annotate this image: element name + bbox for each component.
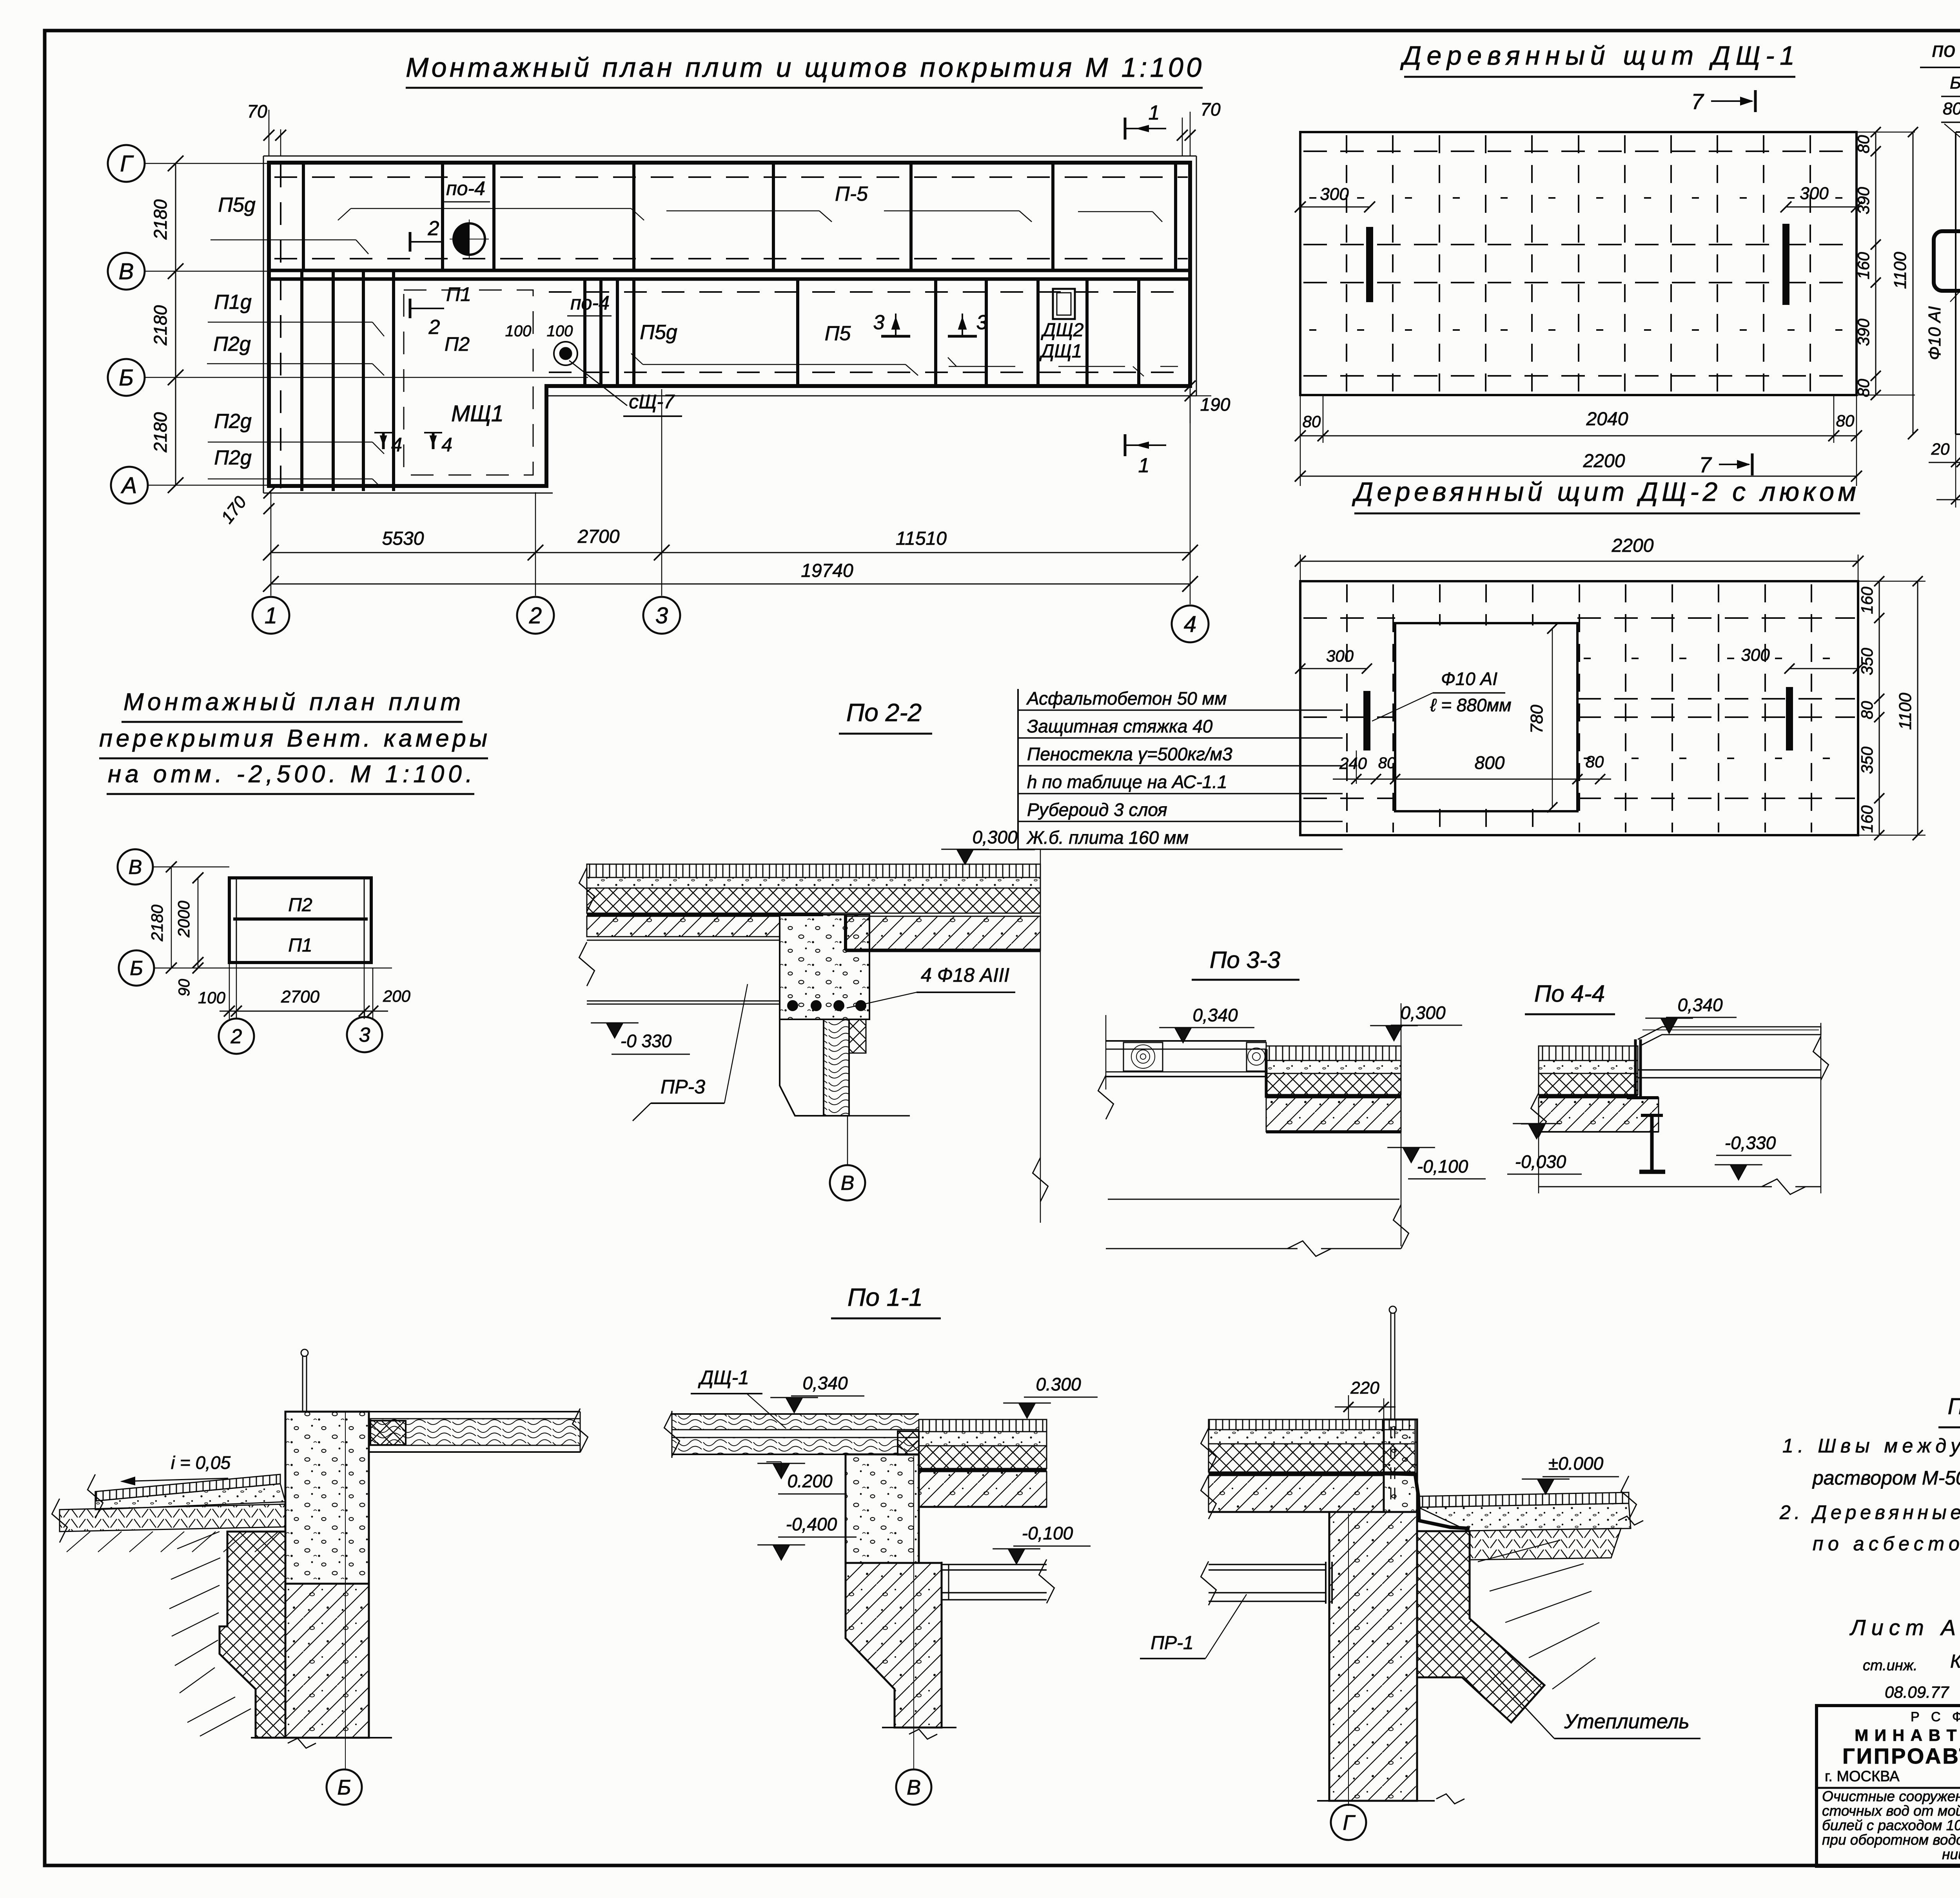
svg-text:780: 780	[1527, 705, 1546, 734]
detail G: purlin I-beam left	[1209, 1564, 1326, 1565]
svg-text:-0,400: -0,400	[786, 1514, 837, 1534]
dim 190 right step	[1190, 386, 1191, 423]
po3-3 recessed roof layers	[1266, 1046, 1401, 1060]
svg-text:ГИПРОАВТОТРАНС: ГИПРОАВТОТРАНС	[1842, 1744, 1960, 1768]
svg-text:0.200: 0.200	[787, 1471, 833, 1491]
svg-text:ПР-1: ПР-1	[1151, 1633, 1193, 1653]
svg-text:160: 160	[1858, 586, 1876, 614]
svg-text:В: В	[841, 1172, 855, 1195]
svg-text:2: 2	[230, 1025, 242, 1048]
svg-text:Очистные сооружения для: Очистные сооружения для	[1822, 1788, 1960, 1804]
svg-text:h по таблице на АС-1.1: h по таблице на АС-1.1	[1027, 772, 1227, 792]
svg-text:390: 390	[1854, 318, 1873, 346]
svg-text:перекрытия Вент. камеры: перекрытия Вент. камеры	[99, 725, 487, 752]
dim 70 top left	[269, 110, 270, 156]
svg-text:350: 350	[1858, 746, 1876, 774]
svg-text:ПР-3: ПР-3	[661, 1076, 705, 1098]
svg-text:1100: 1100	[1891, 252, 1910, 289]
svg-text:билей с расходом 10, 20 и 3: билей с расходом 10, 20 и 30 л/сек	[1822, 1817, 1960, 1833]
leader to SCh-7 label	[569, 361, 627, 406]
svg-text:Г: Г	[1343, 1811, 1356, 1835]
svg-text:при оборотном водоснабже-: при оборотном водоснабже-	[1822, 1832, 1960, 1848]
svg-text:-0,330: -0,330	[1725, 1133, 1776, 1153]
svg-text:80: 80	[1378, 754, 1396, 772]
svg-text:П2: П2	[288, 895, 312, 915]
svg-text:П5: П5	[825, 322, 851, 345]
svg-text:А: А	[121, 473, 137, 498]
po4-4 bottom dim line	[1538, 1132, 1539, 1193]
svg-text:100: 100	[547, 323, 573, 340]
svg-text:В: В	[129, 856, 142, 879]
svg-text:3: 3	[873, 311, 885, 334]
svg-text:ДЩ-1: ДЩ-1	[698, 1367, 749, 1389]
svg-text:2180: 2180	[148, 905, 166, 942]
svg-text:П1g: П1g	[214, 291, 252, 314]
svg-text:0.300: 0.300	[1036, 1374, 1081, 1394]
detail B: sloped roadway layers	[95, 1474, 280, 1501]
svg-text:7: 7	[1691, 89, 1704, 114]
leader lines P-5 top band	[351, 208, 631, 209]
dim 1100 strip	[1913, 132, 1914, 434]
opening PO-4 circle top band	[454, 223, 485, 255]
svg-text:0,300: 0,300	[1400, 1002, 1446, 1023]
svg-text:Б: Б	[130, 957, 143, 980]
svg-text:раствором М-50.: раствором М-50.	[1812, 1467, 1960, 1489]
svg-text:08.09.77: 08.09.77	[1885, 1683, 1949, 1701]
building outline thick	[269, 163, 1190, 486]
svg-text:П2g: П2g	[214, 410, 252, 433]
detail G: roof slab layers left	[1209, 1419, 1415, 1430]
svg-text:П2g: П2g	[214, 446, 252, 469]
leader lines P5 bottom band	[643, 364, 906, 365]
svg-text:4 Ф18 АIII: 4 Ф18 АIII	[921, 964, 1009, 986]
svg-text:80: 80	[1586, 752, 1604, 771]
DSh-1 panel rectangle	[1300, 132, 1857, 395]
DSh-1 rod bars	[1366, 227, 1373, 302]
svg-text:1: 1	[1149, 102, 1160, 124]
svg-text:-0 330: -0 330	[621, 1031, 672, 1051]
svg-text:МЩ1: МЩ1	[451, 401, 504, 426]
svg-text:По 1-1: По 1-1	[848, 1283, 923, 1311]
svg-text:5530: 5530	[382, 528, 424, 549]
DSh-2 right dim chains	[1879, 581, 1880, 835]
po4-4 I-beam	[1650, 1115, 1654, 1170]
wall line at axis B (two thick lines)	[269, 269, 1190, 272]
section mark 2 bottom	[409, 299, 412, 318]
detail G: lightning rod	[1390, 1313, 1392, 1419]
dim 70 top right	[1182, 118, 1183, 156]
bottom band plate dividers	[583, 279, 586, 386]
po4-4 Z flashing thick	[1635, 1039, 1641, 1098]
svg-text:19740: 19740	[801, 560, 853, 581]
bottom dimension line 1 (5530/2700/11510)	[271, 552, 1190, 553]
svg-text:7: 7	[1699, 452, 1712, 477]
DSh-2 opening width dims	[1356, 750, 1357, 784]
top band plate dividers	[302, 163, 305, 270]
svg-text:0,300: 0,300	[972, 827, 1018, 847]
detail V: purlin (I-beam) to the right	[942, 1564, 1047, 1565]
svg-text:0,340: 0,340	[1192, 1005, 1238, 1025]
svg-text:2. Деревянные щиты обши: 2. Деревянные щиты обшить кровельной ста…	[1779, 1501, 1960, 1523]
svg-text:2: 2	[529, 603, 542, 628]
svg-text:11510: 11510	[896, 528, 947, 549]
svg-text:Деревянный щит ДЩ-1: Деревянный щит ДЩ-1	[1400, 41, 1795, 71]
stamp outer box	[1817, 1706, 1960, 1866]
svg-text:Монтажный план плит: Монтажный план плит	[123, 689, 461, 716]
axis lines horizontal	[145, 163, 1190, 164]
svg-text:2180: 2180	[150, 412, 171, 453]
svg-text:-0,100: -0,100	[1417, 1156, 1468, 1177]
DSh-2 dashed grid	[1346, 584, 1348, 832]
main roof plan: axis bubbles	[108, 145, 145, 182]
strip section vertical plank	[1955, 132, 1956, 434]
svg-text:2: 2	[428, 316, 440, 339]
bottom dimension line 2 (19740)	[271, 584, 1190, 585]
detail V: roof layers right	[919, 1419, 1047, 1432]
svg-text:М И Н А В Т О Т Р А Н С: М И Н А В Т О Т Р А Н С	[1855, 1726, 1960, 1744]
detail G: soil herringbone under right roof	[1470, 1528, 1621, 1560]
dim 170 bottom left	[263, 488, 274, 499]
column bubbles 1-4	[252, 597, 289, 634]
detail B: wall below (concrete hatched)	[285, 1584, 369, 1738]
detail B: ground hatch under road	[67, 1532, 90, 1552]
svg-text:П5g: П5g	[218, 194, 256, 216]
svg-text:г. МОСКВА: г. МОСКВА	[1825, 1768, 1900, 1785]
svg-text:80: 80	[1836, 412, 1855, 430]
section marks 4	[382, 433, 385, 449]
vent plan slab rectangle	[229, 878, 371, 963]
svg-text:П2g: П2g	[213, 333, 251, 355]
svg-text:Р С Ф С Р: Р С Ф С Р	[1911, 1709, 1960, 1724]
left dimension line 2180x3	[175, 163, 176, 485]
svg-text:2000: 2000	[174, 901, 193, 938]
po3-3 walls below	[1105, 1015, 1107, 1089]
svg-text:сЩ-7: сЩ-7	[629, 391, 675, 413]
svg-text:220: 220	[1350, 1378, 1379, 1398]
vent plan bottom dims	[236, 963, 237, 1019]
svg-text:Брус: Брус	[1950, 73, 1960, 92]
DSh-2 rod bars	[1363, 691, 1370, 750]
detail V: axis bubble V	[913, 1456, 914, 1769]
detail B: axis line and bubble B	[345, 1412, 346, 1769]
svg-text:160: 160	[1858, 805, 1876, 833]
dashed inner left wall edge	[280, 165, 281, 490]
svg-text:350: 350	[1858, 647, 1876, 675]
detail G: waterproof thick step line	[1209, 1473, 1384, 1474]
svg-text:70: 70	[247, 101, 267, 121]
svg-text:i = 0,05: i = 0,05	[171, 1452, 231, 1473]
svg-text:по-4: по-4	[570, 292, 610, 314]
detail G: soil hatch right of insulation	[1478, 1540, 1560, 1562]
svg-text:Деревянный щит ДЩ-2 с: Деревянный щит ДЩ-2 с люком	[1352, 477, 1856, 507]
vent plan axis bubbles	[118, 849, 153, 885]
vent plan dims left	[171, 867, 172, 968]
svg-text:Утеплитель: Утеплитель	[1564, 1710, 1690, 1733]
svg-text:2040: 2040	[1586, 409, 1628, 430]
section mark 1 top right	[1124, 118, 1127, 140]
svg-text:П5g: П5g	[640, 321, 677, 344]
svg-text:0,340: 0,340	[1677, 995, 1723, 1015]
detail G: insulation crosshatch block	[1417, 1531, 1544, 1722]
svg-text:300: 300	[1741, 645, 1770, 665]
svg-text:2200: 2200	[1583, 451, 1625, 471]
svg-text:-0,100: -0,100	[1022, 1523, 1073, 1543]
svg-text:2200: 2200	[1612, 535, 1654, 556]
detail V: wall block below with chamfer	[846, 1563, 942, 1728]
svg-text:90: 90	[176, 979, 193, 997]
inner dashed plate edges top band	[274, 176, 1188, 178]
detail G: parapet small column	[1384, 1419, 1417, 1512]
svg-text:Асфальтобетон 50 мм: Асфальтобетон 50 мм	[1026, 688, 1227, 709]
svg-text:ДЩ1: ДЩ1	[1039, 341, 1082, 362]
detail B: stepped foundation insulation (crosshatch)	[220, 1532, 285, 1738]
column axis verticals to bubbles	[270, 492, 272, 596]
DSh-1 plank grid dashed verticals	[1346, 135, 1347, 392]
beam (rib) with reinforcement	[780, 915, 869, 1019]
axis bubble V po2-2	[847, 1116, 848, 1165]
svg-text:80: 80	[1858, 701, 1876, 719]
svg-text:сточных вод от мойки авто: сточных вод от мойки автомо-	[1822, 1803, 1960, 1819]
svg-text:ДЩ2: ДЩ2	[1041, 320, 1084, 341]
section mark 2 top	[409, 232, 412, 252]
svg-text:3: 3	[655, 603, 668, 628]
DSh-2 hatch opening	[1395, 623, 1577, 811]
svg-text:800: 800	[1475, 752, 1505, 773]
svg-text:Б: Б	[337, 1776, 351, 1799]
svg-text:по 1-1: по 1-1	[1932, 38, 1960, 62]
svg-text:2: 2	[428, 217, 439, 240]
svg-text:300: 300	[1320, 185, 1349, 204]
svg-text:3: 3	[359, 1024, 370, 1046]
detail V: wooden shield band (two plank layers)	[672, 1413, 919, 1415]
svg-text:П2: П2	[445, 333, 470, 355]
svg-text:по асбестокартону толщино: по асбестокартону толщиной 5 мм.	[1813, 1533, 1960, 1555]
svg-text:по-4: по-4	[446, 178, 485, 199]
inner dashed plate edges bottom band	[549, 291, 1184, 293]
DSh2 hatch marker rectangle	[1053, 289, 1075, 319]
svg-text:300: 300	[1326, 647, 1354, 665]
svg-text:2700: 2700	[577, 526, 620, 547]
svg-text:По 4-4: По 4-4	[1534, 981, 1605, 1007]
svg-text:20: 20	[1931, 440, 1950, 458]
svg-text:В: В	[907, 1776, 921, 1799]
svg-text:80: 80	[1854, 135, 1873, 153]
right recessed concrete strip	[846, 916, 1040, 950]
detail B: lightning rod	[302, 1356, 303, 1412]
detail G: axis bubble G	[1348, 1514, 1349, 1806]
svg-text:Г: Г	[120, 151, 134, 176]
detail B: wooden shield band on top	[369, 1411, 580, 1412]
svg-text:Рубероид 3 слоя: Рубероид 3 слоя	[1027, 799, 1167, 820]
svg-text:П1: П1	[446, 283, 471, 305]
svg-text:190: 190	[1200, 394, 1230, 415]
section mark 1 bottom right	[1124, 434, 1127, 456]
svg-text:Ф10 АІ: Ф10 АІ	[1925, 306, 1944, 360]
wood post under beam	[824, 1019, 849, 1116]
svg-text:4: 4	[441, 434, 452, 456]
svg-text:Б: Б	[119, 365, 134, 390]
detail B: parapet concrete column	[285, 1412, 369, 1584]
svg-text:ℓ = 880мм: ℓ = 880мм	[1430, 695, 1511, 715]
DSh-1 horizontal batten dashed lines	[1303, 150, 1853, 152]
po2-2 roof slab layered bands	[587, 864, 1040, 877]
svg-text:4: 4	[1184, 611, 1196, 637]
svg-text:2180: 2180	[150, 305, 171, 346]
left ceiling slab concrete strip	[587, 916, 780, 937]
svg-text:4: 4	[391, 434, 402, 456]
svg-text:2700: 2700	[281, 987, 319, 1006]
svg-text:±0.000: ±0.000	[1548, 1453, 1604, 1474]
svg-text:80: 80	[1303, 412, 1321, 431]
detail G: lower roof right (tiles + dots sloped)	[1418, 1492, 1629, 1507]
detail G: main wall below	[1329, 1512, 1417, 1801]
outer thin offset lines	[263, 156, 1196, 157]
svg-text:Пеностекла γ=500кг/м3: Пеностекла γ=500кг/м3	[1027, 744, 1232, 764]
right edge line with break	[1040, 864, 1041, 1223]
po4-4 precast slab right	[1638, 1027, 1821, 1046]
detail B: soil hatch left of foundation	[177, 1532, 220, 1549]
svg-text:240: 240	[1339, 754, 1367, 772]
svg-text:В: В	[119, 259, 134, 284]
svg-text:2180: 2180	[150, 199, 171, 240]
svg-text:300: 300	[1800, 184, 1829, 203]
svg-text:Ж.б. плита 160 мм: Ж.б. плита 160 мм	[1026, 827, 1189, 848]
section marks 3	[895, 314, 897, 336]
DSh-1 right dim chain 80/390/160/390/80	[1875, 132, 1877, 395]
svg-text:на отм. -2,500. М 1:100.: на отм. -2,500. М 1:100.	[108, 761, 472, 788]
svg-text:390: 390	[1854, 187, 1873, 214]
svg-text:3: 3	[976, 311, 988, 334]
svg-text:1100: 1100	[1896, 692, 1915, 730]
vent plan bubbles 2 3	[236, 1011, 237, 1019]
strip bottom dims 20/100/20 and 140	[1955, 434, 1956, 508]
slab soffit lines left	[587, 1001, 780, 1002]
svg-text:100: 100	[198, 988, 226, 1007]
svg-text:Кочетова: Кочетова	[1950, 1651, 1960, 1672]
DSh-2 panel rectangle	[1300, 581, 1858, 835]
detail V: parapet column	[846, 1454, 919, 1563]
svg-text:200: 200	[383, 987, 411, 1005]
svg-text:160: 160	[1854, 252, 1873, 279]
po4-4 roof layers left (recessed)	[1539, 1046, 1638, 1060]
svg-text:-0,030: -0,030	[1515, 1151, 1566, 1172]
DSh-1 bottom dims 80/2040/80 and 2200	[1300, 395, 1301, 486]
svg-text:П1: П1	[288, 935, 312, 956]
svg-text:Ф10 АІ: Ф10 АІ	[1441, 669, 1497, 689]
svg-text:1: 1	[265, 603, 277, 628]
po3-3 wooden shield band left	[1106, 1040, 1266, 1042]
svg-text:100: 100	[505, 323, 532, 340]
svg-text:1: 1	[1138, 454, 1150, 477]
svg-text:Защитная стяжка 40: Защитная стяжка 40	[1027, 716, 1213, 736]
opening SCh-7 circle	[554, 342, 577, 365]
svg-text:0,340: 0,340	[802, 1373, 848, 1393]
roof layers text block	[1017, 689, 1019, 850]
svg-text:70: 70	[1200, 99, 1221, 120]
svg-text:Примечания: Примечания	[1948, 1394, 1960, 1419]
svg-text:По 2-2: По 2-2	[846, 698, 922, 727]
svg-text:80: 80	[1854, 379, 1873, 397]
svg-text:нии.: нии.	[1942, 1846, 1960, 1862]
svg-text:По 3-3: По 3-3	[1210, 947, 1280, 973]
svg-text:П-5: П-5	[835, 183, 868, 205]
svg-text:80×100: 80×100	[1943, 99, 1960, 118]
left tall block plate strips	[300, 271, 303, 491]
svg-text:ст.инж.: ст.инж.	[1863, 1657, 1918, 1674]
DSh-2 780 vertical dim	[1552, 629, 1553, 807]
MSh1 inner dashed rectangle	[404, 290, 533, 475]
